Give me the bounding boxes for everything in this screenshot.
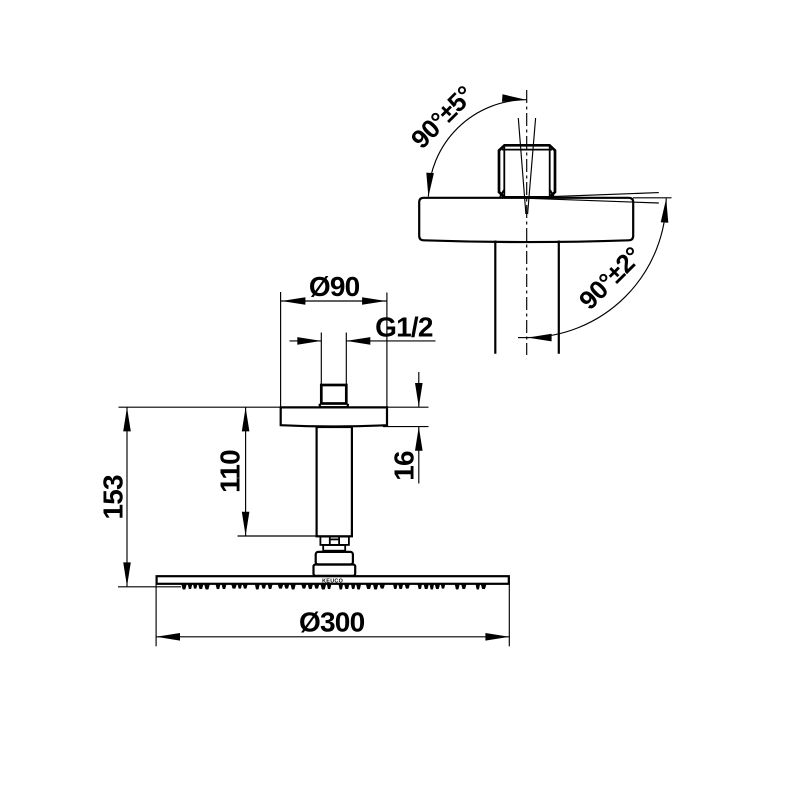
dimension 153: dimension line xyxy=(126,407,128,586)
angular dimension 90°±2°: arc xyxy=(527,198,666,337)
union hex nut at arm end xyxy=(320,537,349,545)
svg-text:G1/2: G1/2 xyxy=(375,311,433,342)
dimension 153: top arrowhead xyxy=(123,407,131,431)
detail: ceiling flange (side view) xyxy=(419,198,633,242)
dimension G1/2: extension line left xyxy=(320,333,322,385)
joint ring below nut xyxy=(323,545,345,551)
G1/2 threaded connector (main view) xyxy=(321,385,346,404)
dimension Ø300: right arrowhead xyxy=(485,633,509,641)
detail: connector thread relief line left xyxy=(503,146,505,197)
hex nut chamfer line xyxy=(330,538,339,540)
detail: horizontal reference extension of flange top xyxy=(633,197,672,199)
connector base skirt (main view) xyxy=(320,404,348,408)
dimension Ø300: extension line right xyxy=(508,577,510,646)
dimension Ø90: left arrowhead xyxy=(281,297,305,305)
thin reference line y=586.8 (spray face plane, for dim 153) xyxy=(118,586,181,588)
detail: shower arm stub below flange xyxy=(494,241,496,354)
dimension G1/2: dimension line with outside tails xyxy=(290,340,322,342)
hex nut facet line left xyxy=(329,537,331,545)
thin reference line y=407 (top plane of ceiling flange) xyxy=(119,406,429,408)
shower arm tube (main view) xyxy=(317,427,352,536)
hex nut facet line right xyxy=(338,537,340,545)
svg-text:110: 110 xyxy=(214,450,245,493)
angular dimension 90°±5°: arc xyxy=(428,100,526,197)
thin reference line y=426.5 (bottom plane of flange, for dim 16) xyxy=(383,426,429,428)
dimension Ø90: dimension line xyxy=(281,300,387,302)
shower head plate Ø300 (side profile) xyxy=(157,576,509,584)
svg-text:Ø90: Ø90 xyxy=(309,271,360,302)
dimension 16: lower dimension line xyxy=(418,427,420,484)
dimension Ø300: extension line left xyxy=(155,577,157,646)
swivel housing upper section xyxy=(316,552,353,565)
angular dim 90°±5°: arrowhead at flange plane xyxy=(426,173,434,197)
dimension Ø90: extension line right xyxy=(386,293,388,427)
svg-text:153: 153 xyxy=(98,475,129,520)
swivel housing lower section xyxy=(314,565,356,576)
dimension G1/2: right arrowhead (pointing left) xyxy=(346,337,370,345)
detail view: vertical center line (dash-dot) xyxy=(526,90,528,355)
dimension G1/2: extension line right xyxy=(345,333,347,385)
detail: mounting tolerance line (-2 deg) xyxy=(528,193,659,198)
dimension 110: bottom arrowhead xyxy=(242,512,250,536)
detail: swivel tolerance line (+5 deg) xyxy=(528,118,536,214)
dimension Ø90: extension line left xyxy=(280,292,282,407)
svg-text:90°±5°: 90°±5° xyxy=(405,80,480,155)
detail: connector base flare xyxy=(500,190,554,197)
detail: mounting tolerance line (+2 deg) xyxy=(528,198,659,203)
svg-text:90°±2°: 90°±2° xyxy=(573,241,648,316)
dimension Ø300: dimension line xyxy=(156,636,510,638)
angular dim 90°±2°: arrowhead at centre line xyxy=(528,334,552,342)
dimension Ø300: left arrowhead xyxy=(156,633,180,641)
thin reference line y=536 (bottom of shower arm, for dim 110) xyxy=(238,535,319,537)
angular dim 90°±2°: tail through centre line xyxy=(518,337,529,339)
dimension 16: lower arrowhead (pointing up) xyxy=(415,427,423,451)
dimension 110: dimension line xyxy=(245,407,247,535)
detail: G1/2 connector square with chamfered corners xyxy=(499,145,555,197)
dimension 110: top arrowhead xyxy=(242,407,250,431)
dimension 16: upper arrowhead (pointing down) xyxy=(415,383,423,407)
angular dim 90°±5°: arrowhead at centre line xyxy=(502,94,526,102)
svg-text:Ø300: Ø300 xyxy=(299,607,365,638)
detail: connector thread relief line right xyxy=(549,146,551,197)
dimension G1/2: left arrowhead (pointing right) xyxy=(297,337,321,345)
detail: swivel tolerance line (-5 deg) xyxy=(518,118,526,214)
spray nozzles (sawtooth profile under head plate) xyxy=(182,584,487,589)
angular dim 90°±2°: arrowhead at flange plane xyxy=(661,199,669,223)
dimension 153: bottom arrowhead xyxy=(123,562,131,586)
dimension Ø90: right arrowhead xyxy=(362,297,386,305)
svg-text:16: 16 xyxy=(388,451,419,481)
ceiling flange Ø90 (main view) xyxy=(281,407,387,426)
dimension 16: upper dimension line xyxy=(418,372,420,407)
detail: connector thread relief line top xyxy=(502,149,552,151)
